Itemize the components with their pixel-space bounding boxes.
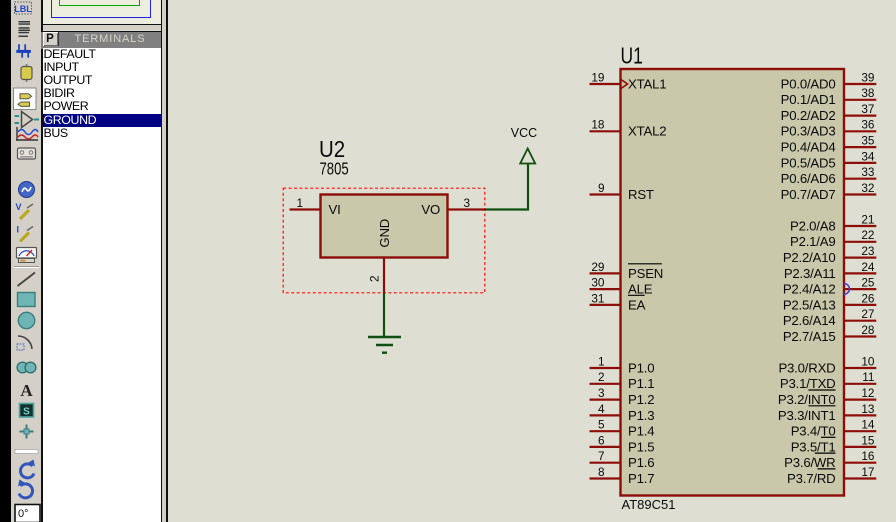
svg-text:P3.2/INT0: P3.2/INT0: [778, 392, 836, 407]
wire: U2 pin2 to ground: [383, 294, 385, 338]
U1 pin 11 (P3.1/TXD) wire: [844, 383, 876, 385]
svg-text:AT89C51: AT89C51: [622, 497, 676, 512]
U1 pin name ALE: [628, 282, 653, 297]
U1 pin 27 (P2.6/A14) wire: [844, 320, 876, 322]
toolbar icon: wire label / terminal blue: [16, 44, 30, 58]
U1 pin 18 (XTAL2) wire: [590, 130, 621, 132]
svg-text:26: 26: [861, 291, 875, 305]
svg-text:33: 33: [861, 165, 875, 179]
U1 pin name P1.2: [628, 392, 654, 407]
wire: U2 VO to VCC corner: [486, 163, 528, 210]
toolbar icon: 2D circle: [18, 312, 34, 328]
U1 pin name P2.3/A11: [784, 266, 836, 281]
U1 pin 22 (P2.1/A9) wire: [844, 241, 876, 243]
svg-text:P1.2: P1.2: [628, 392, 654, 407]
svg-text:P0.3/AD3: P0.3/AD3: [781, 124, 836, 139]
toolbar icon: voltage probe: [15, 202, 33, 219]
toolbar icon: current probe: [16, 225, 33, 242]
toolbar icon: tape recorder: [17, 148, 35, 159]
toolbar icon: graph: [16, 127, 38, 140]
svg-text:38: 38: [861, 86, 875, 100]
U1 pin name P2.5/A13: [783, 297, 836, 312]
angle edit box: [15, 505, 40, 522]
svg-text:6: 6: [598, 433, 605, 447]
svg-text:21: 21: [861, 212, 874, 226]
svg-text:GND: GND: [377, 219, 392, 248]
svg-text:P3.7/RD: P3.7/RD: [787, 471, 835, 486]
U1 pin name P0.4/AD4: [781, 140, 836, 155]
U1 pin 36 (P0.3/AD3) wire: [844, 130, 876, 132]
toolbar icon: device pins mode (gate): [14, 112, 39, 128]
svg-text:3: 3: [463, 196, 470, 210]
U1 pin 30 (ALE) wire: [590, 288, 621, 290]
svg-text:8: 8: [598, 465, 605, 479]
U1 clock marker on XTAL1: [621, 80, 628, 89]
U1 pin 4 (P1.3) wire: [590, 414, 621, 416]
toolbar icon: generator: [18, 182, 34, 198]
svg-text:VI: VI: [329, 202, 341, 217]
svg-text:RST: RST: [628, 187, 654, 202]
U1 pin 15 (P3.5/T1) wire: [844, 446, 876, 448]
U1 pin 1 (P1.0) wire: [590, 367, 621, 369]
U1 pin name P2.7/A15: [783, 329, 836, 344]
svg-text:P1.0: P1.0: [628, 360, 654, 375]
svg-text:3: 3: [598, 386, 605, 400]
U1 pin 16 (P3.6/WR) wire: [844, 462, 876, 464]
svg-text:P3.6/WR: P3.6/WR: [784, 455, 835, 470]
overview window interior: [43, 0, 161, 24]
svg-text:13: 13: [861, 402, 875, 416]
svg-text:37: 37: [861, 102, 874, 116]
svg-text:27: 27: [861, 307, 874, 321]
svg-text:ALE: ALE: [628, 282, 653, 297]
toolbar icon: 2D arc: [17, 336, 32, 350]
svg-text:10: 10: [861, 354, 875, 368]
panel right border: [161, 0, 163, 522]
svg-text:1: 1: [296, 196, 303, 210]
U1 pin 28 (P2.7/A15) wire: [844, 335, 876, 337]
svg-text:34: 34: [861, 149, 875, 163]
object list white area: [43, 48, 161, 522]
U1 pin 33 (P0.6/AD6) wire: [844, 178, 876, 180]
svg-text:P0.1/AD1: P0.1/AD1: [781, 92, 836, 107]
U2 pin 2 wire (GND, bottom): [383, 258, 385, 294]
U1 pin name P3.5/T1: [791, 437, 836, 454]
svg-text:P2.0/A8: P2.0/A8: [790, 218, 836, 233]
U1 pin name P0.2/AD2: [781, 108, 836, 123]
U1 pin 8 (P1.7) wire: [590, 477, 621, 479]
svg-text:P1.4: P1.4: [628, 424, 654, 439]
svg-text:P3.0/RXD: P3.0/RXD: [778, 360, 835, 375]
U1 pin 13 (P3.3/INT1) wire: [844, 414, 876, 416]
U1 pin name P3.7/RD: [787, 469, 835, 486]
toolbar icon: 2D marker: [19, 425, 33, 439]
svg-text:P1.5: P1.5: [628, 439, 654, 454]
svg-text:P2.3/A11: P2.3/A11: [784, 266, 836, 281]
svg-text:35: 35: [861, 134, 875, 148]
U2 pin 1 wire (VI): [290, 208, 321, 210]
U1 pin name P0.3/AD3: [781, 124, 836, 139]
toolbar icon: device pin (yellow): [21, 64, 32, 82]
toolbar icon: 2D text: [20, 381, 33, 400]
U1 pin 6 (P1.5) wire: [590, 446, 621, 448]
svg-text:14: 14: [861, 418, 875, 432]
svg-text:P3.1/TXD: P3.1/TXD: [780, 376, 836, 391]
svg-text:2: 2: [368, 275, 382, 282]
toolbar icon: script: [18, 21, 30, 37]
U1 pin name P2.4/A12: [783, 282, 836, 297]
toolbar icon: 2D closed path: [17, 362, 36, 373]
U1 pin 24 (P2.3/A11) wire: [844, 272, 876, 274]
U2 body (7805 regulator): [321, 195, 448, 258]
U1 pin 26 (P2.5/A13) wire: [844, 304, 876, 306]
U1 pin name P3.0/RXD: [778, 360, 835, 375]
U1 pin 37 (P0.2/AD2) wire: [844, 114, 876, 116]
U1 pin name PSEN: [628, 264, 663, 281]
U1 pin 10 (P3.0/RXD) wire: [844, 367, 876, 369]
far-left black strip: [0, 0, 11, 522]
svg-text:4: 4: [598, 402, 605, 416]
U1 pin name RST: [628, 187, 654, 202]
U1 pin name P3.6/WR: [784, 453, 835, 470]
U1 pin 29 (PSEN) wire: [590, 272, 621, 274]
cursor mark (blue) at pin 25: [844, 284, 849, 295]
svg-text:2: 2: [598, 370, 605, 384]
svg-text:P2.1/A9: P2.1/A9: [790, 234, 836, 249]
svg-text:VO: VO: [421, 202, 440, 217]
svg-text:31: 31: [591, 291, 604, 305]
svg-text:19: 19: [591, 70, 604, 84]
svg-text:P3.4/T0: P3.4/T0: [791, 424, 836, 439]
U1 pin name EA: [628, 295, 646, 312]
svg-text:P2.7/A15: P2.7/A15: [783, 329, 836, 344]
toolbar icon: virtual instrument: [16, 248, 36, 263]
U1 pin name XTAL1: [628, 76, 666, 91]
gap between overview and header: [43, 25, 162, 30]
toolbar separator: [14, 267, 39, 268]
U1 pin name XTAL2: [628, 124, 666, 139]
VCC power terminal: [520, 149, 535, 164]
svg-text:18: 18: [591, 118, 605, 132]
U1 pin 35 (P0.4/AD4) wire: [844, 146, 876, 148]
U2 pin 3 wire (VO): [448, 208, 487, 210]
object selector header frame: [41, 31, 162, 50]
svg-text:25: 25: [861, 276, 875, 290]
svg-text:32: 32: [861, 181, 874, 195]
U1 pin 23 (P2.2/A10) wire: [844, 257, 876, 259]
svg-text:36: 36: [861, 118, 875, 132]
svg-text:P0.2/AD2: P0.2/AD2: [781, 108, 836, 123]
U1 pin name P0.0/AD0: [781, 76, 836, 91]
svg-text:P0.5/AD5: P0.5/AD5: [781, 155, 836, 170]
U1 pin 17 (P3.7/RD) wire: [844, 477, 876, 479]
toolbar icon: 2D box: [17, 293, 35, 307]
toolbar icon: 2D line: [17, 273, 35, 287]
overview bottom border: [41, 24, 164, 26]
toolbar icon: rotate clockwise: [20, 460, 34, 478]
svg-text:30: 30: [591, 276, 605, 290]
U1 pin name P3.4/T0: [791, 424, 836, 439]
P button: [43, 32, 59, 46]
U1 pin name P3.2/INT0: [778, 390, 836, 407]
svg-text:11: 11: [862, 370, 874, 384]
svg-text:17: 17: [861, 465, 874, 479]
svg-text:1: 1: [598, 354, 605, 368]
U1 pin 21 (P2.0/A8) wire: [844, 225, 876, 227]
U1 body (AT89C51): [621, 69, 845, 496]
toolbar icon: 2D symbol: [19, 404, 33, 418]
U1 pin 7 (P1.6) wire: [590, 462, 621, 464]
svg-text:23: 23: [861, 244, 875, 258]
U1 pin name P1.6: [628, 455, 654, 470]
U1 pin 12 (P3.2/INT0) wire: [844, 399, 876, 401]
svg-text:29: 29: [591, 260, 604, 274]
svg-text:VCC: VCC: [511, 126, 537, 140]
selection tag-box (red dashed) around U2: [283, 188, 485, 293]
toolbar icon: label (LBL): [14, 2, 32, 14]
U1 pin name P2.6/A14: [783, 313, 836, 328]
svg-text:P2.4/A12: P2.4/A12: [783, 282, 836, 297]
toolbar icons svg: [11, 0, 42, 522]
svg-text:P1.7: P1.7: [628, 471, 654, 486]
svg-text:P0.4/AD4: P0.4/AD4: [781, 140, 836, 155]
svg-text:P2.2/A10: P2.2/A10: [783, 250, 836, 265]
svg-text:5: 5: [598, 418, 605, 432]
svg-text:EA: EA: [628, 297, 646, 312]
svg-text:22: 22: [861, 228, 874, 242]
svg-text:P3.5/T1: P3.5/T1: [791, 439, 836, 454]
svg-text:P1.1: P1.1: [628, 376, 654, 391]
U1 pin name P2.0/A8: [790, 218, 836, 233]
U1 pin 9 (RST) wire: [590, 193, 621, 195]
toolbar pressed button: terminals mode: [13, 88, 36, 110]
U1 pin name P3.1/TXD: [780, 376, 836, 391]
U1 pin name P0.7/AD7: [781, 187, 836, 202]
U1 pin 25 (P2.4/A12) wire: [844, 288, 876, 290]
svg-text:P3.3/INT1: P3.3/INT1: [778, 408, 836, 423]
svg-text:P0.0/AD0: P0.0/AD0: [781, 76, 836, 91]
svg-text:P1.3: P1.3: [628, 408, 654, 423]
svg-text:7805: 7805: [320, 160, 349, 179]
svg-text:P0.7/AD7: P0.7/AD7: [781, 187, 836, 202]
svg-text:24: 24: [861, 260, 875, 274]
TERMINALS title: [58, 32, 162, 46]
U1 pin name P1.5: [628, 439, 654, 454]
U1 pin name P2.2/A10: [783, 250, 836, 265]
svg-text:9: 9: [598, 181, 605, 195]
svg-text:XTAL1: XTAL1: [628, 76, 666, 91]
toolbar icon: rotate anticlockwise: [18, 480, 32, 498]
svg-text:P2.5/A13: P2.5/A13: [783, 297, 836, 312]
U1 pin 34 (P0.5/AD5) wire: [844, 162, 876, 164]
U1 pin name P0.5/AD5: [781, 155, 836, 170]
overview blue view rect: [51, 0, 151, 18]
U1 pin 19 (XTAL1) wire: [590, 83, 621, 85]
svg-text:U1: U1: [621, 44, 643, 69]
U1 pin 3 (P1.2) wire: [590, 399, 621, 401]
toolbar background: [11, 0, 42, 522]
U1 pin 39 (P0.0/AD0) wire: [844, 83, 876, 85]
svg-text:P1.6: P1.6: [628, 455, 654, 470]
svg-text:28: 28: [861, 323, 875, 337]
toolbar separator 2: [15, 450, 38, 454]
U1 pin name P1.7: [628, 471, 654, 486]
overview green sheet rect: [59, 0, 141, 6]
ground terminal: [368, 337, 401, 353]
U1 pin 14 (P3.4/T0) wire: [844, 430, 876, 432]
svg-text:39: 39: [861, 70, 874, 84]
splitter gap: [162, 0, 165, 522]
svg-text:P2.6/A14: P2.6/A14: [783, 313, 836, 328]
canvas left border: [166, 0, 168, 522]
svg-text:U2: U2: [319, 136, 345, 162]
U1 pin 32 (P0.7/AD7) wire: [844, 193, 876, 195]
U1 pin 5 (P1.4) wire: [590, 430, 621, 432]
U1 pin name P2.1/A9: [790, 234, 836, 249]
svg-text:7: 7: [598, 449, 605, 463]
U1 pin 2 (P1.1) wire: [590, 383, 621, 385]
U1 pin name P1.4: [628, 424, 654, 439]
U1 pin name P0.1/AD1: [781, 92, 836, 107]
svg-text:16: 16: [861, 449, 875, 463]
U1 pin name P0.6/AD6: [781, 171, 836, 186]
svg-text:XTAL2: XTAL2: [628, 124, 666, 139]
toolbar/panel divider: [41, 0, 43, 522]
svg-text:12: 12: [861, 386, 874, 400]
U1 pin 38 (P0.1/AD1) wire: [844, 99, 876, 101]
U1 pin name P1.1: [628, 376, 654, 391]
U1 pin name P1.3: [628, 408, 654, 423]
svg-text:15: 15: [861, 433, 875, 447]
svg-text:PSEN: PSEN: [628, 266, 663, 281]
U1 pin 31 (EA) wire: [590, 304, 621, 306]
U1 pin name P1.0: [628, 360, 654, 375]
U1 pin name P3.3/INT1: [778, 406, 836, 423]
svg-text:P0.6/AD6: P0.6/AD6: [781, 171, 836, 186]
